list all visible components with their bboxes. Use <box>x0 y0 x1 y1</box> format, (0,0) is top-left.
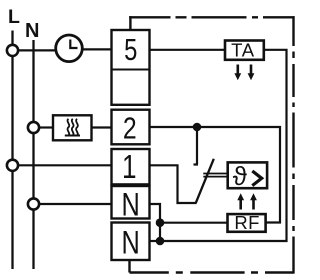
junction node N bus upper <box>156 218 165 227</box>
TA arrow down 1 <box>237 65 240 75</box>
TA arrow down 2 <box>250 65 253 75</box>
terminal circle on N line (terminal N row) <box>28 198 39 209</box>
RF arrow up 1 <box>239 200 242 210</box>
junction node at terminal 2 wire <box>193 123 202 132</box>
wire L terminal to clock to terminal 5 <box>17 49 112 50</box>
svg-text:5: 5 <box>124 32 137 67</box>
TA box <box>225 41 264 60</box>
svg-text:ϑ: ϑ <box>233 161 248 191</box>
svg-text:RF: RF <box>234 212 259 233</box>
clock (time switch) symbol <box>56 35 83 62</box>
heater (floor heating) box <box>53 115 92 140</box>
wire TA to right side down to N <box>160 50 287 241</box>
terminal block cell N2 <box>112 223 150 261</box>
svg-text:TA: TA <box>231 40 255 61</box>
enclosure dash-dot boundary bottom <box>130 271 294 273</box>
svg-text:2: 2 <box>123 111 137 145</box>
wire N terminal row to terminal N1 <box>39 203 112 205</box>
terminal block cells 5 / blank / 2 <box>112 30 150 105</box>
enclosure dash-dot boundary top <box>129 16 294 18</box>
svg-text:1: 1 <box>122 149 137 186</box>
svg-text:N: N <box>122 226 140 262</box>
terminal block cell 1 <box>112 149 150 184</box>
wire terminal 5 to TA <box>149 49 225 51</box>
wire terminal N2 stub <box>149 240 160 242</box>
thermostat greater-than glyph <box>252 171 261 186</box>
terminal block cell N1 <box>112 186 150 219</box>
wire terminal N1 to N bus <box>149 204 160 241</box>
wire terminal N2 bottom to enclosure boundary <box>128 260 130 273</box>
terminal circle on L line (terminal 1 row) <box>7 160 18 171</box>
junction node N bus lower <box>156 237 165 246</box>
switch blade <box>196 159 214 203</box>
wire node to switch fixed contact <box>194 127 199 165</box>
svg-text:N: N <box>25 20 39 42</box>
svg-text:L: L <box>8 6 20 28</box>
terminal circle on N line (heater row) <box>28 122 39 133</box>
wire L supply line <box>11 31 13 270</box>
wire heater to terminal 2 <box>92 126 113 128</box>
wire terminal 1 to switch hinge <box>149 165 197 203</box>
enclosure dash-dot boundary right <box>292 16 294 273</box>
wire terminal 5 top to enclosure boundary <box>129 16 131 30</box>
svg-text:N: N <box>122 187 140 223</box>
terminal circle on L line (to clock row) <box>7 45 18 56</box>
wire N bus to RF <box>160 222 228 224</box>
wire N supply line <box>32 40 34 269</box>
wire L terminal to terminal 1 <box>17 164 112 166</box>
heater wavy element symbol <box>65 135 80 137</box>
RF box <box>228 214 266 232</box>
wire N line terminal to heater <box>38 126 53 128</box>
switch to thermostat linkage <box>203 174 227 177</box>
RF arrow up 2 <box>252 200 255 210</box>
thermostat box <box>228 162 267 188</box>
wire terminal 2 to node and right side down <box>149 127 280 223</box>
